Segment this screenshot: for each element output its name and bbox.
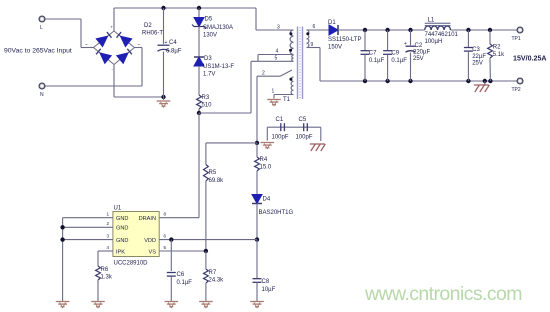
svg-text:US1M-13-F: US1M-13-F	[203, 64, 234, 70]
test point TP1	[517, 27, 523, 33]
transformer primary winding 4-5	[292, 55, 294, 61]
svg-text:R4: R4	[260, 157, 268, 163]
junction rail-C4	[161, 6, 165, 10]
svg-text:4: 4	[276, 49, 279, 55]
svg-text:U1: U1	[114, 206, 122, 212]
svg-text:IPK: IPK	[116, 249, 125, 255]
svg-text:+: +	[165, 40, 168, 46]
wire C4 to gnd node	[163, 52, 165, 98]
wire C2 top	[410, 30, 412, 45]
junction R2 bottom	[488, 79, 492, 83]
resistor R6	[96, 266, 101, 280]
svg-text:TP1: TP1	[512, 36, 521, 42]
svg-text:SS1150-LTP: SS1150-LTP	[328, 37, 361, 43]
wire R2 top	[489, 30, 491, 44]
svg-text:510: 510	[202, 103, 213, 109]
svg-text:L: L	[40, 25, 43, 31]
svg-text:C6: C6	[177, 272, 185, 278]
junction C2	[408, 28, 412, 32]
svg-text:24.3k: 24.3k	[209, 278, 225, 284]
wire pin 6 to D1	[307, 29, 330, 31]
junction VS divider node	[255, 141, 259, 145]
junction VDD-C8	[255, 237, 259, 241]
svg-text:SMAJ130A: SMAJ130A	[203, 25, 233, 31]
svg-text:25V: 25V	[472, 61, 483, 67]
capacitor C2	[406, 46, 416, 52]
junction R2	[488, 28, 492, 32]
wire VDD line	[159, 239, 257, 241]
wire chassis stub	[484, 81, 486, 85]
wire	[135, 47, 143, 49]
wire C8 to gnd	[256, 282, 258, 301]
ground C6	[165, 302, 179, 308]
secondary bottom rail	[320, 80, 517, 82]
transformer primary winding 3-4	[290, 30, 293, 55]
polarity dot pin6	[306, 32, 309, 35]
svg-text:0.1µF: 0.1µF	[369, 58, 385, 64]
svg-text:C8: C8	[262, 279, 270, 285]
wire rail to D5	[198, 8, 200, 18]
wire C3 bottom	[467, 51, 469, 81]
resistor R3	[197, 95, 202, 109]
wire GND bus down	[62, 218, 64, 301]
svg-text:TP2: TP2	[512, 87, 521, 93]
svg-text:6: 6	[164, 234, 167, 239]
svg-text:VS: VS	[149, 249, 157, 255]
terminal N	[39, 83, 45, 89]
diode D1	[329, 25, 338, 35]
wire R4 to D4	[256, 171, 258, 195]
svg-text:D2: D2	[144, 23, 152, 29]
ground U1 GND	[56, 302, 70, 308]
svg-text:D4: D4	[263, 197, 271, 203]
svg-text:1: 1	[107, 212, 110, 217]
inductor L1 core bars	[425, 23, 451, 26]
ground T1 pin1	[267, 100, 281, 106]
diode D4	[252, 195, 262, 204]
junction C2 bottom	[408, 79, 412, 83]
svg-text:0.1µF: 0.1µF	[391, 58, 407, 64]
svg-text:www.cntronics.com: www.cntronics.com	[364, 283, 523, 305]
TVS diode D5	[192, 18, 206, 29]
wire pin4 jog	[257, 55, 259, 62]
terminal L	[39, 16, 45, 22]
svg-text:C4: C4	[169, 40, 177, 46]
wire	[81, 47, 94, 49]
wire pin 2 diagonal	[280, 70, 292, 76]
svg-text:7447462101: 7447462101	[425, 32, 459, 38]
wire bridge+ to rail	[113, 8, 115, 31]
wire U1 DRAIN	[159, 217, 199, 219]
svg-text:1: 1	[272, 89, 275, 95]
junction C9 bottom	[385, 79, 389, 83]
secondary top rail right	[451, 29, 517, 31]
U1 pin names	[116, 216, 156, 255]
wire pin 2	[257, 75, 280, 77]
svg-text:22µF: 22µF	[472, 54, 486, 60]
capacitor C9	[383, 51, 392, 55]
svg-text:N: N	[40, 92, 44, 98]
svg-text:5: 5	[164, 245, 167, 250]
transformer core T1	[298, 27, 303, 100]
wire	[273, 95, 275, 99]
wire pin 1	[274, 94, 294, 96]
svg-text:GND: GND	[116, 238, 128, 244]
wire U1 pin1 GND	[63, 217, 113, 219]
ground	[157, 101, 171, 107]
svg-text:6: 6	[313, 24, 316, 30]
svg-text:4: 4	[107, 245, 110, 250]
capacitor C3	[464, 48, 473, 52]
wire	[163, 97, 165, 100]
junction VDD-C6	[169, 237, 173, 241]
wire L to bridge	[45, 18, 81, 20]
svg-text:2: 2	[262, 71, 265, 77]
wire D4 to VDD node	[256, 204, 258, 240]
svg-text:VDD: VDD	[144, 238, 156, 244]
svg-text:R2: R2	[493, 45, 501, 51]
svg-text:3: 3	[107, 234, 110, 239]
bridge diode top-right	[117, 32, 133, 47]
wire C5 right down	[320, 127, 322, 141]
capacitor C1	[281, 123, 285, 131]
capacitor C4	[158, 45, 170, 51]
wire C1 left down	[266, 127, 268, 140]
polarity dot pin3	[289, 32, 292, 35]
svg-text:15.0: 15.0	[260, 165, 272, 171]
wire D3 to R3	[198, 66, 200, 95]
svg-text:5: 5	[275, 56, 278, 62]
junction C7 bottom	[363, 79, 367, 83]
svg-text:D3: D3	[204, 56, 212, 62]
wire to C6	[170, 240, 172, 271]
bridge diode bottom-right	[116, 49, 132, 65]
svg-text:1.7V: 1.7V	[203, 72, 215, 78]
wire D5 to D3	[198, 27, 200, 58]
wire C9 bottom	[387, 54, 389, 81]
wire R7 to gnd	[205, 283, 207, 301]
svg-text:C1: C1	[276, 117, 284, 123]
wire VS line	[159, 250, 206, 252]
svg-text:0.1µF: 0.1µF	[177, 280, 193, 286]
svg-text:GND: GND	[116, 226, 128, 232]
svg-text:T1: T1	[283, 97, 291, 103]
svg-text:15V/0.25A: 15V/0.25A	[513, 55, 547, 63]
junction C3 bottom	[466, 79, 470, 83]
wire pin 3	[256, 29, 294, 31]
wire R6 to gnd	[97, 280, 99, 301]
capacitor C7	[361, 51, 370, 55]
wire to C4 bottom	[114, 96, 164, 98]
svg-text:L1: L1	[428, 18, 435, 24]
capacitor C5	[304, 123, 308, 131]
svg-text:100pF: 100pF	[272, 135, 289, 141]
svg-text:6.8µF: 6.8µF	[166, 49, 182, 55]
wire to R5	[206, 142, 257, 144]
svg-text:10µF: 10µF	[262, 287, 276, 293]
svg-text:+: +	[404, 41, 407, 47]
wire rail to pin 3	[255, 8, 257, 30]
wire C2 bottom	[410, 53, 412, 82]
svg-text:130V: 130V	[203, 33, 217, 39]
svg-text:R6: R6	[101, 267, 109, 273]
svg-text:D5: D5	[205, 17, 213, 23]
resistor R7	[203, 269, 208, 283]
svg-text:150V: 150V	[328, 45, 342, 51]
secondary top rail left	[338, 29, 425, 31]
svg-text:3: 3	[277, 25, 280, 31]
svg-text:2: 2	[107, 221, 110, 226]
test point TP2	[517, 78, 523, 84]
chassis ground output	[474, 85, 490, 92]
svg-text:D1: D1	[328, 20, 336, 26]
ground R7	[199, 302, 213, 308]
svg-text:5.1k: 5.1k	[493, 52, 505, 58]
junction rail-D5	[197, 6, 201, 10]
svg-text:8: 8	[164, 212, 167, 217]
wire up to pin 5	[250, 61, 252, 113]
wire R5 top	[205, 143, 207, 165]
svg-text:C9: C9	[391, 51, 399, 57]
wire pin 9 down	[319, 48, 321, 82]
wire U1 pin3 GND	[63, 239, 113, 241]
resistor R4	[255, 157, 260, 171]
junction	[60, 237, 64, 241]
wire pin2 down	[256, 76, 258, 143]
junction	[60, 225, 64, 229]
junction chassis	[483, 79, 487, 83]
wire drain node to pin5	[199, 112, 251, 114]
junction C3	[466, 28, 470, 32]
junction drain node	[197, 111, 201, 115]
wire	[80, 19, 82, 48]
wire C9 top	[387, 30, 389, 51]
ground C1	[261, 143, 275, 149]
transformer secondary winding 6-9	[307, 30, 309, 48]
svg-text:R7: R7	[209, 270, 217, 276]
svg-text:C2: C2	[415, 43, 423, 49]
diode D3	[194, 57, 204, 66]
svg-text:1.3k: 1.3k	[101, 275, 113, 281]
svg-text:C3: C3	[472, 47, 480, 53]
resistor R5	[203, 165, 208, 181]
svg-text:R3: R3	[202, 95, 210, 101]
op-amp U1 UCC28910D body	[113, 212, 159, 257]
wire C6 to gnd	[170, 276, 172, 301]
wire VDD node to C8	[256, 240, 258, 279]
svg-text:C5: C5	[299, 117, 307, 123]
wire N to bridge	[45, 85, 142, 87]
svg-text:100µH: 100µH	[425, 39, 443, 45]
wire pin 4	[258, 54, 294, 56]
wire R2 bottom	[489, 58, 491, 81]
svg-text:DRAIN: DRAIN	[139, 216, 156, 222]
wire to R4	[256, 143, 258, 157]
svg-text:90Vac to 265Vac Input: 90Vac to 265Vac Input	[4, 48, 72, 55]
ground C8	[250, 302, 264, 308]
wire C3 top	[467, 30, 469, 48]
wire pin 9	[307, 47, 321, 49]
junction C4-gnd	[161, 95, 165, 99]
bridge diode bottom-left	[96, 49, 112, 65]
transformer aux winding 1-2	[291, 77, 293, 95]
chassis ground C5	[310, 144, 326, 151]
bridge diode top-left	[95, 32, 111, 47]
wire drain node to U1 DRAIN	[198, 113, 200, 218]
wire VS to R7	[205, 251, 207, 269]
wire C7 top	[364, 30, 366, 51]
wire rail to C4	[163, 8, 165, 44]
svg-text:R5: R5	[209, 170, 217, 176]
wire U1 pin2 GND	[63, 226, 113, 228]
svg-text:C7: C7	[369, 51, 377, 57]
junction VS-R7	[204, 249, 208, 253]
polarity dot pin4	[289, 49, 292, 52]
svg-text:BAS20HT1G: BAS20HT1G	[259, 210, 294, 216]
wire to R6	[97, 251, 99, 266]
svg-text:9: 9	[311, 42, 314, 48]
capacitor C8	[253, 279, 262, 283]
svg-text:UCC28910D: UCC28910D	[114, 261, 149, 267]
resistor R2	[488, 44, 493, 58]
svg-text:GND: GND	[116, 216, 128, 222]
junction C7	[363, 28, 367, 32]
svg-text:220µF: 220µF	[413, 50, 430, 56]
polarity dot pin2	[289, 78, 292, 81]
capacitor C6	[167, 273, 176, 277]
wire pin 5	[251, 60, 294, 62]
wire bridge- down	[113, 65, 115, 98]
bridge rectifier D2 outline	[94, 31, 135, 65]
primary HV rail	[114, 7, 256, 9]
wire U1 IPK	[98, 250, 113, 252]
svg-text:25V: 25V	[413, 56, 424, 62]
wire	[141, 48, 143, 87]
wire R3 to drain node	[198, 109, 200, 113]
ground R6	[91, 302, 105, 308]
svg-text:RH06-T: RH06-T	[142, 31, 163, 37]
wire C7 bottom	[364, 54, 366, 81]
svg-text:100pF: 100pF	[296, 135, 313, 141]
wire C1-C5	[267, 126, 321, 128]
svg-text:69.8k: 69.8k	[209, 178, 225, 184]
junction C9	[385, 28, 389, 32]
wire R5 to VS	[205, 181, 207, 251]
inductor L1	[425, 26, 451, 30]
